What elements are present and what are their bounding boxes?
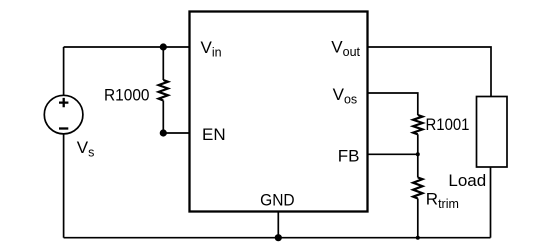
svg-text:FB: FB — [338, 147, 360, 166]
node FB junction dot — [416, 152, 420, 156]
wire R1000 bottom segment — [162, 101, 164, 134]
wire source top vertical — [63, 47, 65, 95]
node Rtrim ground junction dot — [416, 236, 420, 240]
svg-text:R1000: R1000 — [104, 86, 150, 105]
op-amp U1 regulator box — [190, 12, 368, 212]
wire source bottom vertical — [63, 134, 65, 238]
wire Vin top from source to IC — [64, 46, 190, 48]
wire FB — [368, 153, 418, 155]
wire Rtrim to ground rail — [417, 199, 419, 238]
wire EN — [163, 132, 189, 134]
svg-text:Load: Load — [448, 171, 486, 190]
wire Vout to load — [368, 47, 492, 97]
load resistor box — [477, 97, 508, 168]
wire R1001 to FB node — [417, 134, 419, 154]
wire load bottom — [490, 167, 492, 238]
svg-text:R1001: R1001 — [426, 115, 470, 134]
wire R1000 top segment — [162, 47, 164, 80]
node EN junction dot — [160, 129, 167, 136]
svg-text:GND: GND — [260, 190, 295, 209]
wire FB node to Rtrim — [417, 154, 419, 177]
wire Vos to divider — [368, 93, 418, 115]
resistor R1001 — [413, 115, 422, 134]
voltage source V_s circle — [44, 95, 83, 134]
svg-text:EN: EN — [202, 125, 226, 144]
node GND junction dot — [275, 234, 282, 241]
resistor R1000 — [159, 80, 168, 101]
node Vin junction dot — [160, 43, 167, 50]
wire GND pin — [277, 212, 279, 238]
wire bottom ground rail — [64, 237, 491, 239]
resistor Rtrim — [413, 178, 422, 199]
